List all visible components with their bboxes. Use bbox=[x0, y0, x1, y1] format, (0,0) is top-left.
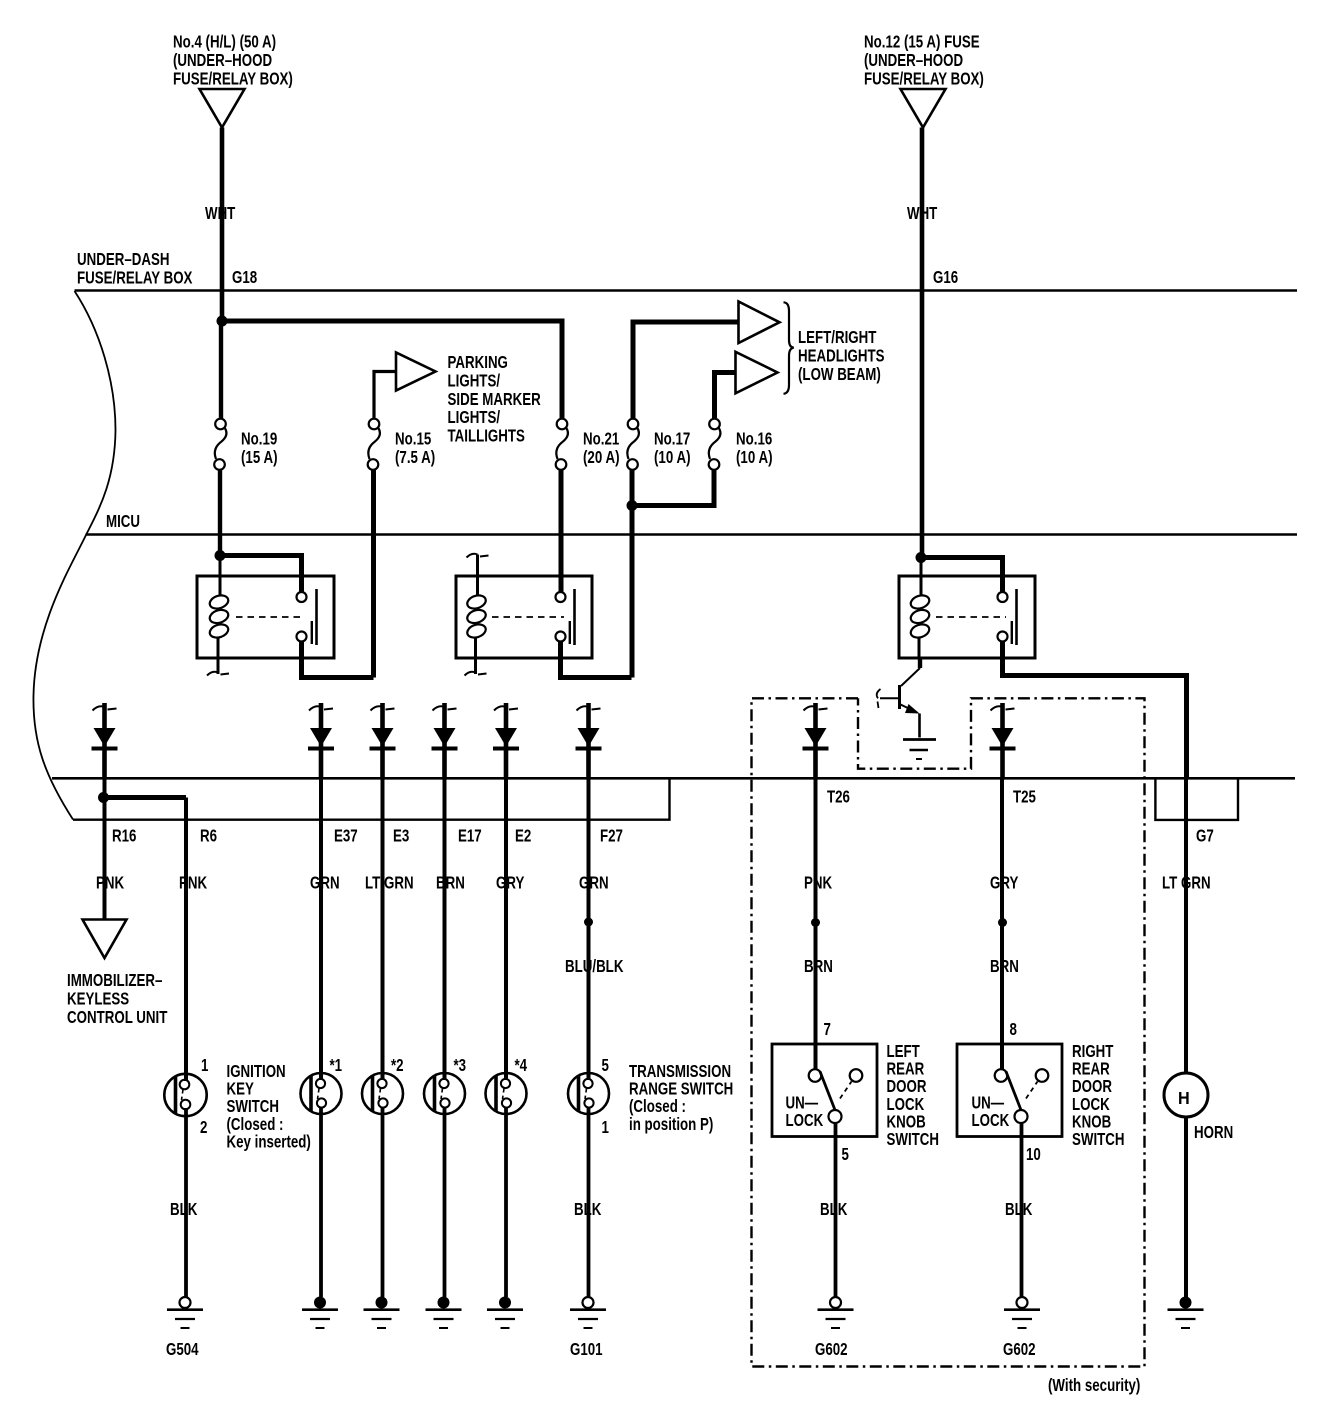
wire E17 BRN to switch *3 bbox=[443, 779, 447, 1081]
label T26 bbox=[827, 788, 850, 807]
label pin 1 transmission bbox=[602, 1118, 610, 1137]
svg-text:WHT: WHT bbox=[907, 204, 938, 223]
svg-text:*3: *3 bbox=[454, 1056, 467, 1075]
diode D1 (R16) bbox=[92, 703, 118, 779]
svg-text:PNK: PNK bbox=[96, 874, 125, 893]
ground for switch *1 bbox=[302, 1297, 338, 1329]
arrow to parking lights bbox=[396, 353, 436, 391]
fuse No.19 (15 A) bbox=[214, 419, 226, 470]
relay U1 dashed actuation line bbox=[236, 616, 305, 618]
diode D6 (F27) bbox=[576, 703, 602, 779]
wire relay 1 feed branch to contact bbox=[220, 556, 302, 593]
label No.15 (7.5 A) bbox=[395, 430, 435, 468]
label fuse No.4 (H/L) (50 A) under-hood bbox=[173, 33, 293, 89]
wire switch *3 to ground bbox=[443, 1107, 447, 1297]
svg-text:R16: R16 bbox=[112, 827, 137, 846]
label GRY (T25) bbox=[990, 874, 1019, 893]
under-dash fuse/relay box top edge bbox=[75, 289, 1298, 292]
label E2 bbox=[515, 827, 531, 846]
label pin 8 bbox=[1010, 1020, 1018, 1039]
node wire color change dot T25 bbox=[998, 918, 1007, 927]
svg-text:GRY: GRY bbox=[990, 874, 1019, 893]
label PNK (R6) bbox=[179, 874, 208, 893]
label UNDER-DASH FUSE/RELAY BOX bbox=[77, 250, 193, 288]
label E17 bbox=[458, 827, 482, 846]
right door lock switch contacts bbox=[995, 1069, 1049, 1123]
wire R16 PNK to immobilizer unit bbox=[103, 779, 107, 920]
node relay 1 feed junction dot bbox=[215, 550, 226, 561]
svg-text:G504: G504 bbox=[166, 1340, 199, 1359]
wire No.15 fuse down to relay 1 output bbox=[371, 470, 376, 678]
svg-text:F27: F27 bbox=[600, 827, 623, 846]
switch *1 bbox=[301, 1073, 342, 1114]
ignition key switch SW1 bbox=[164, 1074, 206, 1116]
relay U1 contact circles and armature bbox=[297, 589, 317, 645]
wire E2 GRY to switch *4 bbox=[504, 779, 508, 1081]
label BLK left door bbox=[820, 1200, 848, 1219]
svg-text:BRN: BRN bbox=[436, 874, 465, 893]
svg-text:1: 1 bbox=[602, 1118, 610, 1137]
svg-text:G16: G16 bbox=[933, 268, 958, 287]
wire R6 PNK to ignition key switch bbox=[184, 798, 188, 1082]
ground G602 right bbox=[1004, 1297, 1040, 1328]
label BRN (E17) bbox=[436, 874, 465, 893]
diode D3 continuation curl bbox=[371, 706, 395, 710]
label F27 bbox=[600, 827, 623, 846]
connector notch at G7 bbox=[1155, 778, 1238, 820]
immobilizer arrow triangle bbox=[83, 920, 127, 959]
label LT GRN (E3) bbox=[365, 874, 414, 893]
diode D1 continuation curl bbox=[93, 706, 117, 710]
label terminal G18 bbox=[232, 268, 257, 287]
svg-text:GRN: GRN bbox=[579, 874, 609, 893]
wire LT GRN horn feed bbox=[1184, 778, 1188, 1073]
svg-text:No.17(10 A): No.17(10 A) bbox=[654, 430, 691, 468]
diode D4 continuation curl bbox=[433, 706, 457, 710]
wire No.19 fuse down to MICU relay coil bbox=[218, 470, 222, 556]
label BLU/BLK bbox=[565, 957, 624, 976]
wire horn to ground bbox=[1184, 1117, 1188, 1297]
label pin 1 ignition bbox=[201, 1056, 209, 1075]
ground for switch *3 bbox=[426, 1297, 462, 1329]
label PNK (R16) bbox=[96, 874, 125, 893]
diode D5 continuation curl bbox=[494, 706, 518, 710]
diode D3 (E3) bbox=[370, 703, 396, 779]
svg-text:E37: E37 bbox=[334, 827, 358, 846]
wire fuse No.17 up to left/right headlights arrow bbox=[633, 322, 738, 418]
wire relay 2 output to fuses No.17/No.16 bbox=[561, 642, 632, 678]
node wire color change dot F27 bbox=[584, 918, 593, 927]
fuse No.17 (10 A) bbox=[627, 419, 639, 470]
svg-text:UN—LOCK: UN—LOCK bbox=[786, 1094, 824, 1131]
wire E3 LT GRN to switch *2 bbox=[381, 779, 385, 1081]
wire switch *2 to ground bbox=[381, 1107, 385, 1297]
svg-text:No.15(7.5 A): No.15(7.5 A) bbox=[395, 430, 435, 468]
svg-text:E2: E2 bbox=[515, 827, 531, 846]
label UN-LOCK right bbox=[972, 1094, 1010, 1131]
ground G504 bbox=[167, 1297, 203, 1328]
svg-text:E17: E17 bbox=[458, 827, 482, 846]
label T25 bbox=[1013, 788, 1036, 807]
wire No.21 fuse down to relay 2 contact bbox=[559, 470, 564, 592]
label BLK (G504) bbox=[170, 1200, 198, 1219]
wire from parking lights arrow to fuse No.15 bbox=[374, 372, 396, 419]
wire relay 3 output to horn feed bbox=[1003, 642, 1187, 779]
node No.16/No.17 junction dot bbox=[627, 500, 638, 511]
diode D6 continuation curl bbox=[577, 706, 601, 710]
relay U1 coil bbox=[208, 556, 230, 675]
relay U1 coil continuation curl bbox=[207, 672, 229, 676]
label pin 2 ignition bbox=[200, 1118, 208, 1137]
diode D7 (T26) bbox=[803, 703, 829, 779]
ground for switch *4 bbox=[487, 1297, 523, 1329]
horn bbox=[1164, 1073, 1208, 1117]
label pin 10 bbox=[1026, 1145, 1041, 1164]
relay U3 coil bbox=[909, 558, 931, 659]
wire T25 GRY/BRN to right door lock switch bbox=[1000, 779, 1004, 1071]
wire relay 3 feed branch to contact bbox=[921, 558, 1003, 593]
MICU top edge line bbox=[86, 533, 1298, 536]
svg-text:HORN: HORN bbox=[1194, 1123, 1233, 1142]
wire relay 1 output to fuse No.15 bbox=[302, 642, 374, 678]
svg-text:MICU: MICU bbox=[106, 512, 140, 531]
label BRN (T26) bbox=[804, 957, 833, 976]
wire WHT from No.4 fuse to G18 bbox=[221, 128, 222, 419]
relay U2 coil bottom continuation curl bbox=[465, 672, 487, 676]
label G602 left bbox=[815, 1340, 848, 1359]
label No.16 (10 A) bbox=[736, 430, 773, 468]
svg-text:BLK: BLK bbox=[820, 1200, 848, 1219]
label TRANSMISSION RANGE SWITCH bbox=[629, 1062, 733, 1134]
wire E37 GRN to switch *1 bbox=[319, 779, 323, 1081]
ground for transistor emitter bbox=[903, 740, 936, 760]
label *2 bbox=[391, 1056, 404, 1075]
label BLK (G101) bbox=[574, 1200, 602, 1219]
svg-text:LT GRN: LT GRN bbox=[1162, 874, 1211, 893]
svg-text:T25: T25 bbox=[1013, 788, 1036, 807]
transistor Q1 bbox=[880, 685, 920, 738]
svg-text:10: 10 bbox=[1026, 1145, 1041, 1164]
svg-text:WHT: WHT bbox=[205, 204, 236, 223]
label LEFT/RIGHT HEADLIGHTS (LOW BEAM) bbox=[798, 328, 885, 384]
svg-text:BLK: BLK bbox=[574, 1200, 602, 1219]
fuse No.15 (7.5 A) bbox=[368, 419, 380, 470]
transmission range switch bbox=[568, 1073, 609, 1114]
diode D4 (E17) bbox=[432, 703, 458, 779]
relay U3 contact circles and armature bbox=[998, 589, 1017, 645]
ground G602 left bbox=[818, 1297, 854, 1328]
svg-text:No.19(15 A): No.19(15 A) bbox=[241, 430, 278, 468]
label GRY (E2) bbox=[496, 874, 525, 893]
svg-text:5: 5 bbox=[602, 1056, 610, 1075]
brace for headlight arrows bbox=[784, 302, 794, 394]
fuse No.12 supply triangle bbox=[901, 89, 946, 128]
svg-text:PNK: PNK bbox=[804, 874, 833, 893]
relay U2 dashed actuation line bbox=[492, 616, 564, 618]
wire No.17 fuse down to relay 2 output bbox=[630, 470, 635, 678]
svg-text:LEFT/RIGHTHEADLIGHTS(LOW BEAM): LEFT/RIGHTHEADLIGHTS(LOW BEAM) bbox=[798, 328, 885, 384]
fuse No.21 (20 A) bbox=[556, 419, 568, 470]
node R16/R6 junction dot bbox=[98, 792, 109, 803]
wire BLK transmission to ground G101 bbox=[587, 1107, 591, 1297]
svg-text:H: H bbox=[1178, 1088, 1190, 1108]
wire No.16 fuse down joining No.17 bbox=[632, 470, 714, 506]
svg-text:E3: E3 bbox=[393, 827, 409, 846]
label MICU bbox=[106, 512, 140, 531]
node G18 junction dot bbox=[217, 316, 228, 327]
wire WHT from No.12 fuse to G16 bbox=[920, 128, 925, 558]
relay U2 coil top continuation curl bbox=[467, 554, 489, 558]
wire switch *1 to ground bbox=[319, 1107, 323, 1297]
label G504 bbox=[166, 1340, 199, 1359]
label WHT right bbox=[907, 204, 938, 223]
wire fuse No.16 up to low beam arrow bbox=[715, 373, 735, 419]
svg-text:R6: R6 bbox=[200, 827, 217, 846]
label BRN (T25) bbox=[990, 957, 1019, 976]
label RIGHT REAR DOOR LOCK KNOB SWITCH bbox=[1072, 1042, 1125, 1149]
label *3 bbox=[454, 1056, 467, 1075]
left rear door lock knob switch box bbox=[772, 1044, 877, 1137]
svg-text:1: 1 bbox=[201, 1056, 209, 1075]
label pin 5 left door bbox=[842, 1145, 850, 1164]
svg-text:8: 8 bbox=[1010, 1020, 1018, 1039]
label G101 bbox=[570, 1340, 603, 1359]
ground for switch *2 bbox=[364, 1297, 400, 1329]
svg-text:2: 2 bbox=[200, 1118, 208, 1137]
MICU bottom edge bus line bbox=[52, 777, 1295, 780]
label G7 bbox=[1196, 827, 1214, 846]
node relay 3 feed junction dot bbox=[916, 552, 927, 563]
svg-text:No.21(20 A): No.21(20 A) bbox=[583, 430, 620, 468]
diode D2 continuation curl bbox=[309, 706, 333, 710]
svg-text:G602: G602 bbox=[1003, 1340, 1036, 1359]
torn-edge arc of under-dash box bbox=[33, 291, 115, 820]
label WHT left bbox=[205, 204, 236, 223]
switch *2 bbox=[362, 1073, 403, 1114]
svg-text:GRN: GRN bbox=[310, 874, 340, 893]
svg-text:BRN: BRN bbox=[990, 957, 1019, 976]
MICU bottom connector box bbox=[73, 778, 670, 819]
label G602 right bbox=[1003, 1340, 1036, 1359]
svg-text:*4: *4 bbox=[515, 1056, 528, 1075]
arrow to left/right headlights upper bbox=[739, 302, 780, 344]
svg-text:BLK: BLK bbox=[170, 1200, 198, 1219]
relay U2 coil bbox=[466, 555, 488, 675]
svg-text:No.16(10 A): No.16(10 A) bbox=[736, 430, 773, 468]
svg-text:T26: T26 bbox=[827, 788, 850, 807]
svg-text:G18: G18 bbox=[232, 268, 257, 287]
svg-text:BRN: BRN bbox=[804, 957, 833, 976]
label No.21 (20 A) bbox=[583, 430, 620, 468]
label E37 bbox=[334, 827, 358, 846]
wire BLK left door to ground G602 bbox=[834, 1123, 838, 1297]
ground G101 bbox=[570, 1297, 606, 1328]
label LT GRN (G7) bbox=[1162, 874, 1211, 893]
svg-text:*2: *2 bbox=[391, 1056, 404, 1075]
right rear door lock knob switch box bbox=[957, 1044, 1062, 1137]
label PNK (T26) bbox=[804, 874, 833, 893]
transistor Q1 collector wire from relay 3 coil bbox=[901, 658, 920, 686]
label pin 5 transmission bbox=[602, 1056, 610, 1075]
label R16 bbox=[112, 827, 137, 846]
dash-dot security box bbox=[752, 698, 1145, 1366]
transistor base continuation curl bbox=[877, 689, 881, 708]
fuse No.4 supply triangle bbox=[200, 89, 245, 128]
svg-text:BLU/BLK: BLU/BLK bbox=[565, 957, 624, 976]
label LEFT REAR DOOR LOCK KNOB SWITCH bbox=[887, 1042, 940, 1149]
label fuse No.12 (15 A) under-hood bbox=[864, 33, 984, 89]
wire switch *4 to ground bbox=[504, 1107, 508, 1297]
label HORN bbox=[1194, 1123, 1233, 1142]
relay U3 box bbox=[899, 576, 1035, 658]
wire BLK ignition to ground G504 bbox=[184, 1108, 188, 1297]
label GRN (E37) bbox=[310, 874, 340, 893]
label UN-LOCK left bbox=[786, 1094, 824, 1131]
label R6 bbox=[200, 827, 217, 846]
arrow to left/right headlights lower bbox=[736, 352, 778, 394]
svg-text:BLK: BLK bbox=[1005, 1200, 1033, 1219]
svg-text:G101: G101 bbox=[570, 1340, 603, 1359]
ground for horn bbox=[1168, 1297, 1204, 1329]
label IMMOBILIZER-KEYLESS CONTROL UNIT bbox=[67, 971, 168, 1027]
label *1 bbox=[330, 1056, 343, 1075]
wire T26 PNK/BRN to left door lock switch bbox=[814, 779, 818, 1071]
label No.19 (15 A) bbox=[241, 430, 278, 468]
label *4 bbox=[515, 1056, 528, 1075]
left door lock switch contacts bbox=[809, 1069, 863, 1123]
label IGNITION KEY SWITCH bbox=[227, 1062, 311, 1152]
svg-text:(With security): (With security) bbox=[1048, 1376, 1140, 1395]
svg-text:GRY: GRY bbox=[496, 874, 525, 893]
label (With security) bbox=[1048, 1376, 1140, 1395]
diode D2 (E37) bbox=[308, 703, 334, 779]
relay U2 contact circles and armature bbox=[556, 589, 575, 645]
diode D5 (E2) bbox=[493, 703, 519, 779]
relay U2 box bbox=[456, 576, 592, 658]
svg-text:UN—LOCK: UN—LOCK bbox=[972, 1094, 1010, 1131]
label E3 bbox=[393, 827, 409, 846]
label GRN (F27) bbox=[579, 874, 609, 893]
relay U3 dashed actuation line bbox=[936, 616, 1006, 618]
label pin 7 bbox=[824, 1020, 832, 1039]
svg-text:5: 5 bbox=[842, 1145, 850, 1164]
label PARKING LIGHTS / SIDE MARKER LIGHTS / TAILLIGHTS bbox=[448, 353, 542, 446]
svg-text:G602: G602 bbox=[815, 1340, 848, 1359]
wire BLK right door to ground G602 bbox=[1020, 1123, 1024, 1297]
label terminal G16 bbox=[933, 268, 958, 287]
svg-text:G7: G7 bbox=[1196, 827, 1214, 846]
node wire color change dot T26 bbox=[811, 918, 820, 927]
diode D8 (T25) bbox=[990, 703, 1016, 779]
switch *3 bbox=[424, 1073, 465, 1114]
svg-text:7: 7 bbox=[824, 1020, 832, 1039]
svg-text:PNK: PNK bbox=[179, 874, 208, 893]
switch *4 bbox=[486, 1073, 527, 1114]
svg-text:LT GRN: LT GRN bbox=[365, 874, 414, 893]
diode D8 continuation curl bbox=[991, 706, 1015, 710]
label BLK right door bbox=[1005, 1200, 1033, 1219]
wire branch G18 to fuse No.21 bbox=[222, 321, 562, 419]
diode D7 continuation curl bbox=[804, 706, 828, 710]
svg-text:*1: *1 bbox=[330, 1056, 343, 1075]
fuse No.16 (10 A) bbox=[709, 419, 721, 470]
relay U1 box bbox=[197, 576, 334, 658]
wire branch to R6 bbox=[104, 795, 187, 800]
label No.17 (10 A) bbox=[654, 430, 691, 468]
wire F27 GRN/BLU-BLK to transmission range switch bbox=[587, 779, 591, 1081]
